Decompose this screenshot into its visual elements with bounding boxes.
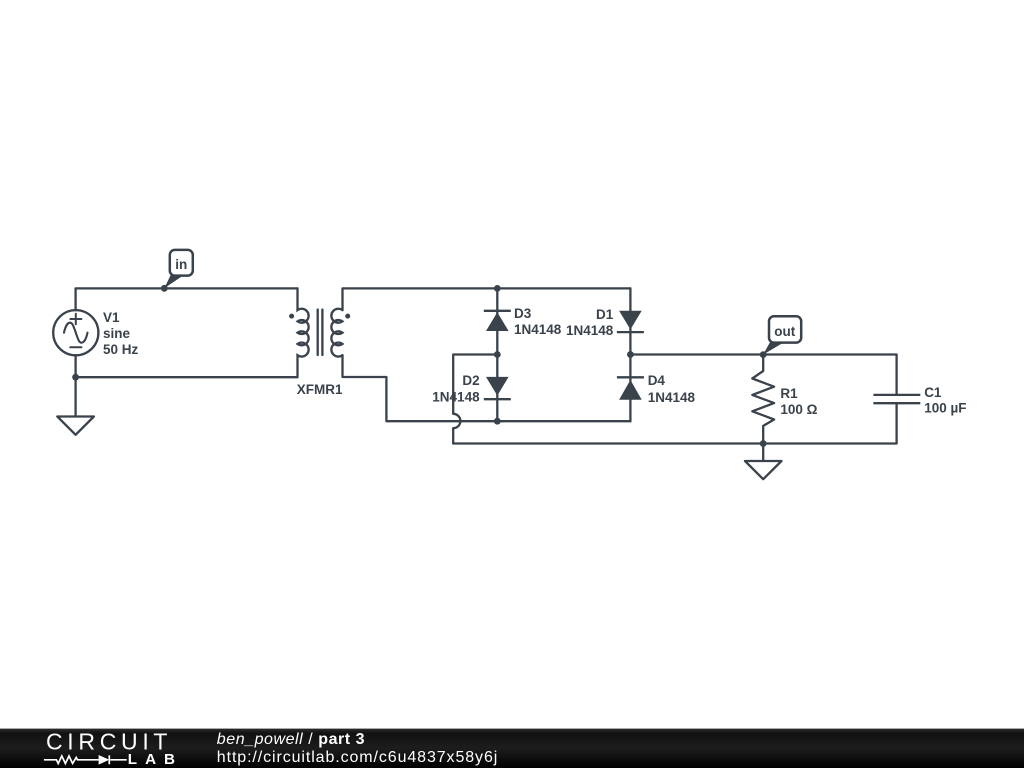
resistor R1 bbox=[752, 355, 774, 444]
svg-text:1N4148: 1N4148 bbox=[432, 389, 480, 404]
wire bottom net bbox=[453, 442, 896, 444]
svg-text:out: out bbox=[774, 324, 795, 339]
D2 labels bbox=[432, 373, 480, 404]
svg-text:ben_powell / part 3: ben_powell / part 3 bbox=[217, 731, 365, 748]
diode D3 bbox=[484, 311, 511, 331]
V1 labels bbox=[103, 310, 139, 357]
wire bridge left branch bbox=[496, 288, 498, 421]
wire mid-left tap with hop bbox=[453, 355, 497, 444]
ground at R1 bbox=[745, 444, 782, 480]
R1 labels bbox=[780, 386, 817, 417]
wire top rail secondary bbox=[343, 288, 631, 310]
junction V1 bottom bbox=[72, 374, 79, 381]
svg-text:D4: D4 bbox=[648, 373, 666, 388]
svg-text:100 µF: 100 µF bbox=[924, 401, 966, 416]
transformer XFMR1 bbox=[298, 288, 343, 377]
C1 labels bbox=[924, 385, 966, 416]
transformer phase dots bbox=[289, 314, 294, 319]
node in flag bbox=[161, 250, 193, 292]
junction R1 bottom bbox=[760, 440, 767, 447]
wire top rail primary bbox=[76, 288, 298, 310]
footer bar bbox=[0, 729, 1024, 768]
svg-text:in: in bbox=[175, 257, 187, 272]
D4 labels bbox=[648, 373, 696, 405]
svg-text:http://circuitlab.com/c6u4837x: http://circuitlab.com/c6u4837x58y6j bbox=[217, 749, 498, 766]
junction D3 top bbox=[494, 285, 501, 292]
svg-text:LAB: LAB bbox=[128, 751, 183, 768]
voltage source V1 bbox=[53, 310, 98, 355]
footer logo schematic glyph bbox=[44, 755, 127, 764]
svg-text:sine: sine bbox=[103, 326, 131, 341]
wire bottom rail primary bbox=[76, 355, 298, 377]
wire bridge right branch bbox=[629, 288, 631, 421]
junction bridge mid-left bbox=[494, 351, 501, 358]
svg-text:1N4148: 1N4148 bbox=[648, 390, 696, 405]
svg-text:100 Ω: 100 Ω bbox=[780, 402, 817, 417]
wire out net bbox=[630, 353, 896, 355]
svg-text:V1: V1 bbox=[103, 310, 120, 325]
ground at V1 bbox=[57, 377, 94, 435]
svg-text:1N4148: 1N4148 bbox=[566, 323, 614, 338]
diode D1 bbox=[617, 311, 644, 332]
wire transformer secondary bottom bbox=[343, 355, 631, 421]
D3 labels bbox=[514, 306, 562, 337]
diode D4 bbox=[617, 377, 644, 400]
diode D2 bbox=[484, 377, 511, 399]
svg-text:D2: D2 bbox=[462, 373, 479, 388]
svg-text:D1: D1 bbox=[596, 307, 614, 322]
svg-text:R1: R1 bbox=[780, 386, 798, 401]
capacitor C1 bbox=[873, 355, 920, 444]
junction D2 bottom bbox=[494, 418, 501, 425]
svg-text:1N4148: 1N4148 bbox=[514, 322, 562, 337]
svg-text:C1: C1 bbox=[924, 385, 942, 400]
junction bridge mid-right bbox=[627, 351, 634, 358]
svg-text:XFMR1: XFMR1 bbox=[297, 382, 343, 397]
node out flag bbox=[760, 316, 801, 358]
svg-text:50 Hz: 50 Hz bbox=[103, 342, 139, 357]
D1 labels bbox=[566, 307, 614, 338]
svg-text:D3: D3 bbox=[514, 306, 532, 321]
